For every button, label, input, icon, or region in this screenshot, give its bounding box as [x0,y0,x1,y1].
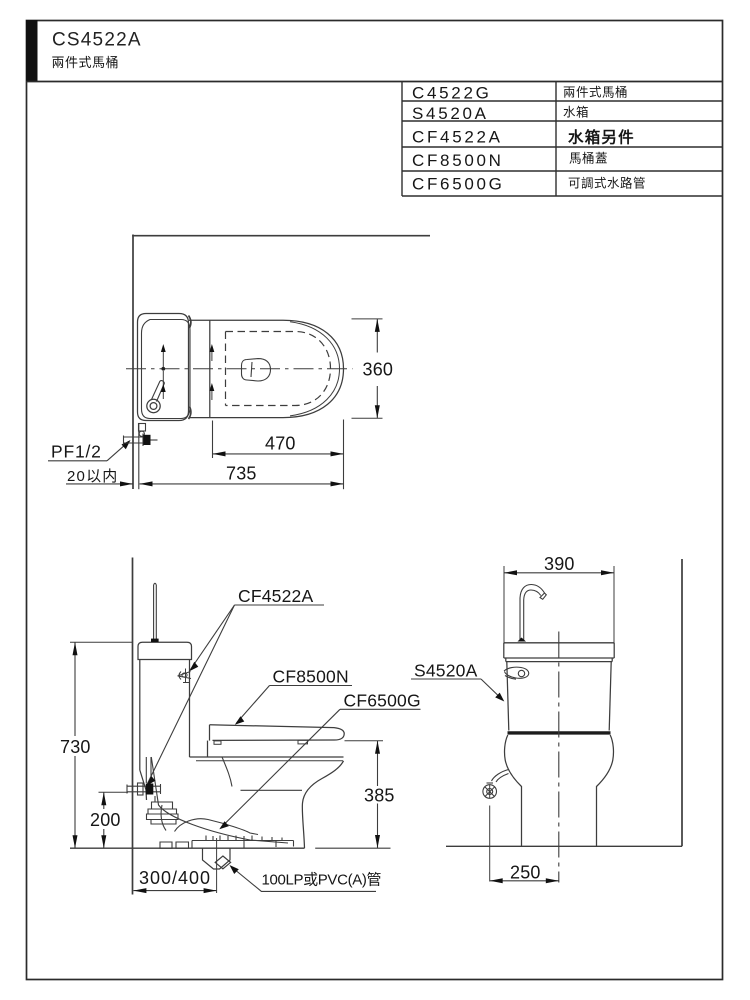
svg-text:S4520A: S4520A [412,104,489,123]
svg-text:250: 250 [510,863,541,883]
svg-text:300/400: 300/400 [139,868,211,888]
svg-text:CF4522A: CF4522A [238,586,313,606]
svg-text:385: 385 [364,786,395,806]
svg-text:20以内: 20以内 [67,468,119,485]
svg-text:390: 390 [544,554,575,574]
svg-text:水箱另件: 水箱另件 [568,128,635,147]
svg-text:水箱: 水箱 [563,105,589,120]
svg-text:兩件式馬桶: 兩件式馬桶 [563,85,628,100]
svg-text:馬桶蓋: 馬桶蓋 [569,151,608,166]
svg-text:PF1/2: PF1/2 [51,442,102,462]
svg-text:360: 360 [363,360,394,380]
svg-text:CF6500G: CF6500G [344,691,421,711]
svg-text:CS4522A: CS4522A [52,30,142,51]
svg-text:100LP或PVC(A)管: 100LP或PVC(A)管 [262,872,382,889]
svg-text:兩件式馬桶: 兩件式馬桶 [52,55,120,70]
svg-text:C4522G: C4522G [412,84,492,103]
svg-text:CF6500G: CF6500G [412,175,505,194]
svg-text:470: 470 [265,434,296,454]
svg-text:可調式水路管: 可調式水路管 [568,176,646,191]
svg-text:CF8500N: CF8500N [273,667,349,687]
svg-text:CF8500N: CF8500N [412,151,504,170]
svg-text:735: 735 [226,464,257,484]
svg-text:CF4522A: CF4522A [412,128,503,147]
svg-text:S4520A: S4520A [414,661,478,681]
svg-text:730: 730 [60,737,91,757]
svg-text:200: 200 [90,810,121,830]
